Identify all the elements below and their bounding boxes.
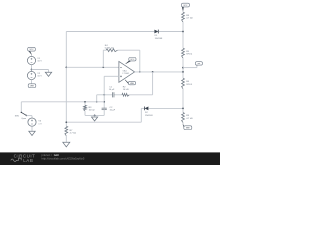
wire mid ground stem <box>48 70 50 73</box>
wire chain top <box>182 11 184 13</box>
node jog-railB junction <box>96 101 98 103</box>
op-amp plus sign <box>120 75 122 77</box>
flag VCC supply <box>28 47 36 54</box>
wire ground stem mid <box>94 115 96 117</box>
diode D1 <box>154 30 158 34</box>
resistor R8 <box>182 12 185 22</box>
wire chain R8-nodeA <box>182 22 184 48</box>
wire chain R5-R6 <box>182 58 184 78</box>
node A <box>182 31 184 33</box>
diode D2 <box>145 107 149 111</box>
label R6 <box>186 81 192 86</box>
wire switch to V3 <box>26 116 32 118</box>
wire out-tap horizontal <box>183 65 197 67</box>
wire top horizontal <box>66 31 154 33</box>
svg-text:10 µF: 10 µF <box>110 110 116 112</box>
node R4-output junction <box>139 71 141 73</box>
ground V3 <box>29 131 35 135</box>
label R9 <box>186 115 193 120</box>
node supply mid tap <box>31 69 33 71</box>
node minus-input tap <box>65 66 67 68</box>
wire main left vertical <box>65 32 67 127</box>
wire rail B <box>21 101 104 103</box>
resistor R4 <box>106 49 117 52</box>
node B <box>182 108 184 110</box>
wire V2 bottom lead <box>31 80 33 84</box>
label SW1 <box>15 115 26 119</box>
node R3 top <box>84 101 86 103</box>
svg-text:LT1001: LT1001 <box>123 73 131 75</box>
svg-text:http://circuitlab.com/c/6326a5: http://circuitlab.com/c/6326a5zp6tx5 <box>42 157 85 161</box>
label R5 <box>186 51 192 56</box>
footer bar <box>0 152 220 165</box>
svg-text:10 V: 10 V <box>37 76 42 78</box>
svg-text:1 V: 1 V <box>38 123 42 125</box>
node railB plus junction <box>103 101 105 103</box>
wire minus input <box>66 66 119 68</box>
wire lower feedback <box>66 121 141 123</box>
svg-text:VCC: VCC <box>30 49 35 51</box>
wire output to rail A vertical <box>152 72 154 95</box>
wire V3 bottom <box>31 126 33 131</box>
capacitor C2 <box>102 108 107 110</box>
source V3 <box>28 118 36 126</box>
node lower feedback tap <box>65 121 67 123</box>
label OA1 <box>123 69 131 75</box>
node bottom rail <box>94 115 96 117</box>
wire railB corner down <box>20 102 22 112</box>
wire R7 to ground <box>65 136 67 143</box>
wire rail A <box>97 94 153 96</box>
svg-text:VCC: VCC <box>183 5 188 7</box>
svg-text:4.7 kΩ: 4.7 kΩ <box>186 18 193 20</box>
wire R4 right lead <box>118 49 140 51</box>
svg-text:1N4148: 1N4148 <box>155 38 163 40</box>
wire plus-input vertical <box>103 76 105 108</box>
svg-text:4.7 kΩ: 4.7 kΩ <box>70 133 77 135</box>
node output-railA junction <box>152 71 154 73</box>
node chain out-tap <box>182 67 184 69</box>
wire R4 left lead <box>103 49 106 51</box>
wire mid tap <box>32 69 49 71</box>
label R4 <box>105 45 114 50</box>
label C1 <box>109 86 115 91</box>
svg-text:1N4148: 1N4148 <box>145 115 153 117</box>
ground R7 <box>63 142 70 147</box>
wire R4 right vertical <box>139 50 141 72</box>
svg-text:976 Ω: 976 Ω <box>186 54 192 56</box>
label D2 <box>145 112 153 117</box>
svg-text:976 Ω: 976 Ω <box>186 84 192 86</box>
wire plus input <box>104 75 119 77</box>
resistor R2 <box>122 93 129 96</box>
label R2 <box>123 86 129 91</box>
label R7 <box>70 130 77 135</box>
switch SW1 terminal top <box>21 112 22 113</box>
resistor R6 <box>182 78 185 89</box>
wire V1-V2 <box>31 65 33 72</box>
label C2 <box>110 107 116 112</box>
wire D2 to chain <box>148 107 183 109</box>
svg-text:VCC: VCC <box>130 59 135 61</box>
wire rail A jog down <box>96 95 98 102</box>
svg-text:jmkrvci /: jmkrvci / <box>41 153 52 157</box>
op-amp V- flag <box>125 80 136 85</box>
svg-text:0.957 kΩ: 0.957 kΩ <box>105 48 114 50</box>
wire D2 lead left <box>141 107 144 109</box>
svg-text:twbl: twbl <box>54 153 59 157</box>
label R8 <box>186 15 193 20</box>
wire chain R6-nodeB <box>182 89 184 113</box>
label D1 1N914 <box>155 35 163 40</box>
wire chain bottom <box>182 123 184 125</box>
wire R4 left vertical <box>102 50 104 67</box>
svg-text:Open: Open <box>21 118 26 120</box>
wire bottom rail <box>85 114 104 116</box>
svg-text:4.7 kΩ: 4.7 kΩ <box>186 118 193 120</box>
wire top right of D1 <box>159 31 183 33</box>
flag VEE supply <box>28 84 36 88</box>
ground parallel-RC <box>92 117 98 121</box>
svg-text:10 kΩ: 10 kΩ <box>123 89 129 91</box>
label R3 <box>89 107 95 112</box>
svg-text:10 kΩ: 10 kΩ <box>89 110 95 112</box>
resistor R5 <box>182 48 185 58</box>
resistor R3 <box>84 105 87 111</box>
label V3 <box>38 121 42 126</box>
flag out <box>195 62 202 66</box>
svg-text:10 V: 10 V <box>37 61 42 63</box>
node feedback tap <box>102 66 104 68</box>
op-amp OA1 body <box>119 61 135 82</box>
wire C2 bottom lead <box>103 110 105 116</box>
wire V1 top lead <box>31 54 33 56</box>
resistor R9 <box>182 113 185 123</box>
wire output <box>135 71 183 73</box>
source V1 <box>27 56 35 64</box>
flag VCC right chain <box>181 3 189 10</box>
svg-text:LAB: LAB <box>23 158 33 163</box>
label V1 <box>37 58 42 63</box>
flag VEE right chain <box>183 125 192 130</box>
node railA plus-input junction <box>103 94 105 96</box>
wire D2 corner vertical <box>140 108 142 122</box>
wire R3 branch top <box>84 102 86 106</box>
op-amp V+ flag <box>126 58 136 64</box>
label V2 <box>37 73 42 78</box>
capacitor C1 <box>112 92 114 97</box>
switch SW1 lever <box>22 113 27 116</box>
svg-text:out: out <box>198 62 201 65</box>
ground supply mid <box>45 72 51 76</box>
node chain output junction <box>182 71 184 73</box>
resistor R7 <box>65 126 68 136</box>
wire R3 branch bottom <box>84 111 86 115</box>
switch SW1 terminal right <box>26 115 27 116</box>
op-amp minus sign <box>120 66 122 68</box>
source V2 <box>27 71 35 79</box>
svg-text:10 µF: 10 µF <box>109 89 115 91</box>
